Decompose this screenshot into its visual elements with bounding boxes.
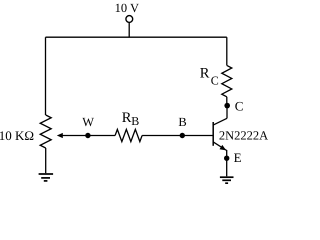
node W junction dot — [85, 133, 90, 138]
node C junction dot — [224, 103, 230, 109]
svg-text:B: B — [131, 114, 139, 128]
svg-text:R: R — [200, 66, 210, 82]
wiper arrowhead — [57, 133, 63, 138]
wire node C to collector — [226, 107, 228, 118]
wire right vertical — [226, 37, 228, 65]
wire 10V terminal drop — [128, 22, 130, 37]
svg-text:10 KΩ: 10 KΩ — [0, 128, 34, 143]
emitter arrowhead — [220, 145, 227, 151]
svg-text:C: C — [211, 73, 219, 87]
wire node E to ground — [226, 158, 228, 176]
svg-text:C: C — [235, 98, 244, 113]
svg-text:R: R — [122, 110, 132, 126]
wire top horizontal — [46, 36, 227, 38]
potentiometer 10 KΩ zigzag — [40, 115, 51, 148]
resistor RC zigzag — [222, 65, 232, 96]
node B junction dot — [180, 133, 185, 138]
svg-text:W: W — [82, 115, 94, 129]
ground left — [39, 174, 54, 181]
svg-text:2N2222A: 2N2222A — [219, 128, 268, 142]
svg-text:10 V: 10 V — [115, 1, 139, 15]
svg-text:B: B — [178, 115, 186, 129]
svg-text:E: E — [234, 150, 242, 165]
transistor Q1 bar — [212, 122, 214, 146]
node E junction dot — [224, 156, 229, 161]
resistor RB zigzag — [115, 129, 142, 141]
wire RC to node C — [226, 97, 228, 104]
transistor collector diagonal — [213, 118, 227, 125]
ground right — [220, 177, 234, 183]
terminal 10V circle — [126, 16, 133, 23]
wire base — [182, 135, 212, 137]
wire emitter to node E — [226, 150, 228, 158]
wire RB to base — [142, 135, 182, 137]
wire wiper to RB — [62, 135, 116, 137]
transistor emitter diagonal — [213, 142, 226, 150]
wire pot bottom — [45, 148, 47, 173]
wire left vertical — [45, 37, 47, 115]
